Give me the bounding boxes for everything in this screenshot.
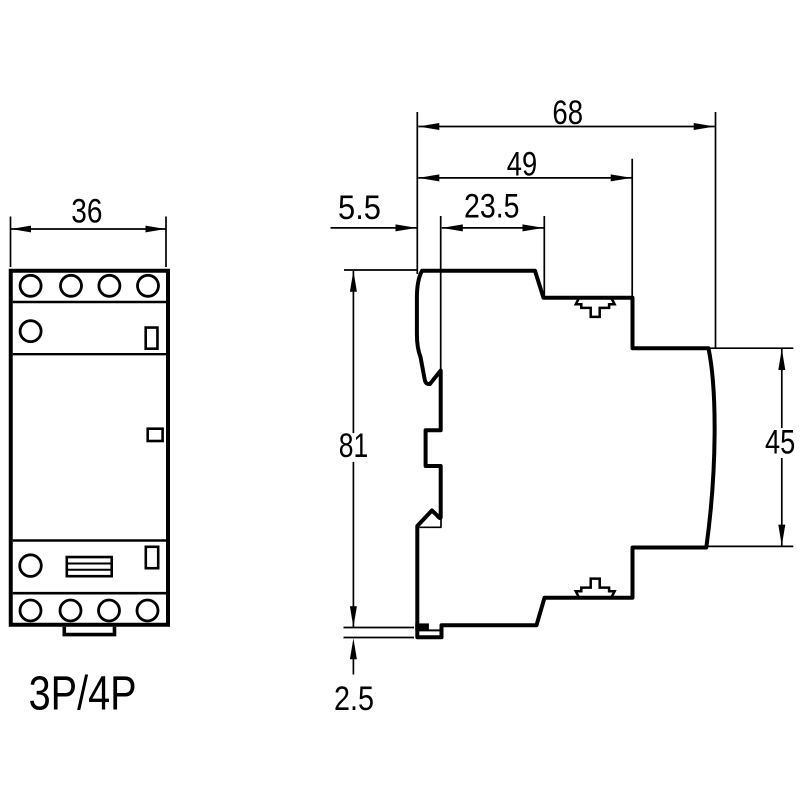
- front view separator line 2: [13, 353, 166, 355]
- dimension 68 arrow right: [694, 123, 715, 130]
- svg-text:68: 68: [552, 94, 583, 132]
- svg-text:45: 45: [765, 424, 795, 462]
- bottom terminal circle 2: [60, 600, 81, 621]
- dimension 23.5 arrow right: [523, 224, 544, 231]
- foot black block: [415, 623, 429, 630]
- coil terminal circle upper: [20, 321, 41, 342]
- dimension 49 extension line right: [631, 159, 633, 297]
- dimension 5.5 leader line: [331, 227, 417, 229]
- front view separator line 4: [13, 592, 166, 595]
- dimension 23.5 line: [442, 227, 544, 229]
- dimension 81 arrow up: [350, 271, 357, 292]
- dimension 68 arrow left: [418, 123, 439, 130]
- dimension 36 arrow right: [146, 226, 166, 233]
- dimension 81 top extension line: [344, 269, 418, 271]
- dimension 45 extension line upper: [710, 347, 793, 349]
- dimension 68 extension line left (shared with 49, 5.5): [416, 112, 418, 274]
- dimension 49 arrow right: [611, 174, 632, 181]
- dimension 5.5 arrow: [396, 224, 417, 231]
- dimension 36 extension line right: [165, 217, 167, 268]
- top terminal circle 2: [61, 275, 82, 296]
- svg-text:23.5: 23.5: [464, 187, 520, 225]
- top terminal circle 4: [138, 275, 159, 296]
- dimension 2.5 arrow up: [350, 638, 357, 659]
- dimension 23.5 arrow left: [442, 224, 463, 231]
- dimension 2.5 arrow shaft: [352, 655, 354, 675]
- dimension 45 extension line lower: [708, 545, 793, 547]
- dimension 45 line lower segment: [781, 458, 783, 546]
- svg-text:5.5: 5.5: [338, 189, 381, 227]
- DIN rail clip symbol top: [576, 299, 615, 317]
- claw pocket detail thin vertical: [440, 519, 442, 527]
- dimension 23.5 extension line left: [440, 216, 442, 370]
- foot inner slot line: [417, 629, 441, 631]
- dimension 81 arrow down: [350, 606, 357, 627]
- indicator rectangle lower right: [146, 547, 158, 568]
- svg-text:49: 49: [507, 146, 537, 184]
- small square middle right: [148, 429, 163, 441]
- dimension 45 arrow down: [778, 525, 785, 546]
- svg-text:3P/4P: 3P/4P: [29, 668, 137, 721]
- svg-text:81: 81: [339, 427, 369, 465]
- DIN rail clip symbol bottom: [576, 579, 615, 597]
- top terminal circle 1: [20, 275, 41, 296]
- top terminal circle 3: [99, 275, 120, 296]
- dimension 81 line upper segment: [352, 271, 354, 433]
- bottom terminal circle 4: [137, 600, 158, 621]
- front view body outline: [11, 271, 168, 625]
- dimension 49 arrow left: [418, 174, 439, 181]
- dimension 2.5 extension line lower: [344, 637, 415, 639]
- bottom terminal circle 3: [99, 600, 120, 621]
- label plate with lines: [67, 557, 112, 576]
- dimension 81 line lower segment: [352, 462, 354, 627]
- dimension 45 line upper segment: [781, 349, 783, 428]
- dimension 49 line: [418, 177, 631, 179]
- indicator rectangle upper right: [146, 328, 158, 349]
- dimension 2.5 extension line upper: [344, 627, 415, 629]
- svg-text:36: 36: [71, 193, 102, 231]
- dimension 68 extension line right: [715, 112, 717, 348]
- claw pocket detail thin horizontal: [419, 526, 441, 528]
- dimension 68 line: [418, 126, 714, 128]
- bottom terminal circle 1: [20, 600, 41, 621]
- front view separator line 1: [13, 301, 166, 303]
- dimension 36 extension line left: [10, 217, 12, 268]
- dimension 36 arrow left: [11, 226, 31, 233]
- side view profile outline: [417, 271, 715, 637]
- svg-text:2.5: 2.5: [334, 680, 374, 718]
- bottom mounting tab: [64, 627, 114, 635]
- dimension 45 arrow up: [778, 349, 785, 370]
- dimension 36 line: [11, 228, 167, 230]
- dimension 23.5 extension line right: [543, 216, 545, 297]
- coil terminal circle lower: [20, 555, 42, 577]
- front view separator line 3: [13, 539, 166, 542]
